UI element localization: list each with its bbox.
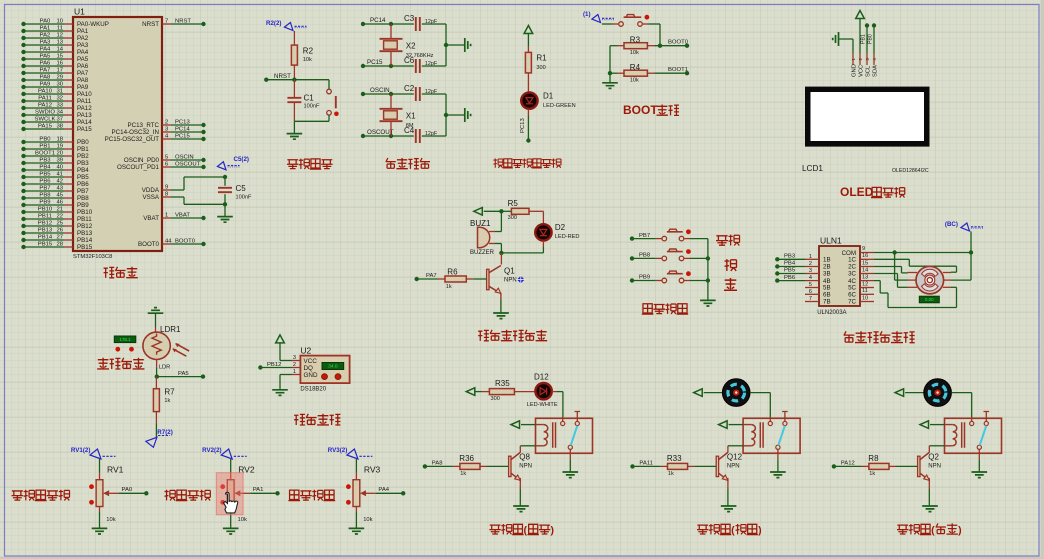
crystal block X2 [361,17,446,68]
potentiometer RV1 10k [89,459,124,523]
LCD1 OLED display body [802,87,930,174]
wire 4C to motor [874,281,957,308]
svg-text:3C: 3C [848,271,856,278]
svg-text:41: 41 [56,171,63,177]
svg-text:PA13: PA13 [77,112,92,119]
svg-text:1k: 1k [460,471,466,477]
svg-text:100nF: 100nF [304,103,320,109]
motor display [919,296,939,303]
svg-text:D2: D2 [555,223,566,232]
OLED ground (left) [833,32,853,53]
buzzer BUZ1 [470,209,504,256]
potentiometer RV3 10k [346,459,381,523]
power arrow U2 [276,335,292,361]
svg-text:PA12: PA12 [77,105,92,112]
svg-text:PA4: PA4 [77,49,89,56]
svg-text:C1: C1 [304,93,315,102]
U1 right pin 3 PC14-OSC32_IN [112,126,206,136]
svg-text:300: 300 [508,215,517,221]
main chip U1 STM32F103C8 [73,7,162,261]
svg-text:34.0: 34.0 [328,364,338,370]
temp sensor U2 DS18B20 [292,345,350,392]
svg-text:PB7: PB7 [77,188,89,195]
svg-text:C6: C6 [404,56,415,65]
svg-text:PA5: PA5 [178,371,189,377]
wire 3C to motor [874,274,908,288]
reset button [294,80,338,122]
svg-text:ULN2003A: ULN2003A [817,310,846,316]
svg-text:R33: R33 [667,454,682,463]
svg-text:PA11: PA11 [38,95,52,101]
svg-text:PB3: PB3 [39,157,51,163]
label for RV1 [12,490,70,501]
svg-text:14: 14 [56,46,63,52]
net PC13 vertical label [520,118,526,133]
svg-text:PB0: PB0 [39,136,51,142]
label 四项步进电机 [844,331,915,342]
svg-text:PB12: PB12 [77,223,93,230]
pin 17 PA7 wire [21,67,88,77]
svg-text:R2(2): R2(2) [266,20,281,27]
pin 43 PB7 wire [21,185,89,195]
svg-text:3: 3 [809,268,812,274]
ULN1 pin 4 4B [805,275,831,285]
power arrow fan [895,389,924,397]
driver U ULN1 ULN2003A [817,235,860,316]
svg-text:PA6: PA6 [77,63,89,70]
U1 right pin 4 PC15-OSC32_OUT [105,133,206,143]
svg-text:PC13: PC13 [175,119,190,125]
crystal block X1 [361,87,446,138]
svg-text:PA9: PA9 [40,81,51,87]
svg-text:10k: 10k [630,78,639,84]
svg-text:PB15: PB15 [77,244,93,251]
svg-text:9: 9 [862,246,865,252]
svg-text:LDR1: LDR1 [160,325,181,334]
svg-text:1: 1 [165,212,168,218]
net PA1 [250,487,279,496]
label BOOT电路 [623,103,679,117]
svg-text:D12: D12 [534,372,549,381]
ULN1 pin 6 6B [805,289,831,299]
pin 14 PA4 wire [21,46,88,56]
svg-text:PB15: PB15 [38,241,53,247]
svg-text:PA6: PA6 [40,60,51,66]
capacitor C5 100nF [218,175,252,207]
svg-text:PB1: PB1 [77,146,89,153]
relay Q [945,412,1002,460]
fan motor [722,379,750,407]
svg-text:LED-GREEN: LED-GREEN [543,103,576,109]
resistor R5 300 [501,199,543,221]
svg-text:300: 300 [491,396,500,402]
svg-text:40: 40 [56,164,63,170]
pin 19 PB1 wire [21,143,89,153]
capacitor C2 12pF [404,84,438,101]
svg-text:PB14: PB14 [77,237,93,244]
LDR value display [114,336,136,352]
svg-text:7C: 7C [848,299,856,306]
LED D12 LED-WHITE [527,372,563,417]
svg-text:DQ: DQ [304,365,314,372]
svg-text:PA7: PA7 [40,67,51,73]
probe (1) [583,11,614,23]
svg-text:OSCOUT: OSCOUT [367,129,394,136]
svg-text:3: 3 [293,355,296,361]
wire VSSA to C5 [171,197,225,204]
relay bottom ground [972,459,988,477]
svg-text:PB8: PB8 [639,253,651,259]
svg-text:PA5: PA5 [77,56,89,63]
pin 16 PA6 wire [21,60,88,70]
svg-text:21: 21 [56,206,63,212]
U1 right pin 9 VDDA [142,184,171,194]
svg-text:BOOT1: BOOT1 [35,150,55,156]
svg-text:14: 14 [862,267,868,273]
svg-text:PB7: PB7 [39,185,50,191]
capacitor C4 12pF [404,126,438,143]
svg-text:VBAT: VBAT [143,215,159,222]
svg-text:R35: R35 [495,379,510,388]
svg-text:PA3: PA3 [77,42,89,49]
svg-text:6B: 6B [823,292,831,299]
svg-text:28: 28 [56,241,63,247]
svg-text:PA1: PA1 [40,25,51,31]
svg-text:9: 9 [165,184,168,190]
svg-text:C2: C2 [404,84,415,93]
svg-text:PA10: PA10 [77,91,92,98]
svg-text:PB1: PB1 [39,143,50,149]
pin 27 PB14 wire [21,234,92,244]
relay Q [536,412,593,460]
svg-text:10: 10 [56,18,63,24]
svg-text:PB13: PB13 [77,230,93,237]
svg-text:R4: R4 [630,63,641,72]
svg-text:PB4: PB4 [39,164,51,170]
svg-text:R2: R2 [303,47,314,56]
net PB5 to ULN [775,268,805,276]
svg-text:C5: C5 [236,184,247,193]
label 加 [725,259,737,271]
power arrow R35 [466,388,489,396]
svg-text:PB5: PB5 [39,171,51,177]
svg-text:): ) [551,524,555,536]
relay coil power arrow [920,421,945,429]
svg-text:RV2(2): RV2(2) [202,447,222,454]
svg-text:PB0: PB0 [77,139,89,146]
U1 right pin 7 NRST [142,18,206,28]
svg-text:30: 30 [56,81,63,87]
potentiometer RV2 10k [220,459,255,523]
svg-text:PA8: PA8 [432,460,443,466]
svg-text:PB4: PB4 [784,261,796,267]
svg-text:32: 32 [56,95,63,101]
svg-text:PA7: PA7 [77,70,89,77]
svg-text:BUZZER: BUZZER [470,250,495,256]
pin 21 PB10 wire [21,206,92,216]
wire 1C to motor [874,259,957,272]
label 声光报警电路 [478,330,547,341]
svg-text:C4: C4 [404,126,415,135]
svg-text:R5: R5 [508,199,519,208]
svg-text:1: 1 [809,254,812,260]
svg-text:GND: GND [304,372,318,379]
svg-text:10k: 10k [106,517,115,523]
svg-text:29: 29 [56,74,63,80]
label 独立按键 [642,303,688,314]
svg-text:VCC: VCC [859,65,865,77]
svg-text:(: ( [931,524,935,536]
ULN1 pin 13 4C [848,274,874,284]
fan to relay wire [951,393,971,417]
U1 right pin 8 VSSA [142,191,171,201]
ground crystal (sideways) [444,108,471,122]
svg-text:R8: R8 [868,454,879,463]
ground Q12 [721,478,737,512]
svg-text:Q1: Q1 [504,267,515,276]
svg-text:16: 16 [56,60,63,66]
stepper motor [908,266,952,294]
transistor Q1 NPN [487,253,517,294]
relay coil power arrow [719,421,744,429]
capacitor C1 100nF [287,80,320,122]
svg-text:PB6: PB6 [77,181,89,188]
label for RV2 [164,490,210,501]
node PA5 [155,360,206,379]
pin 46 PB9 wire [21,199,89,209]
svg-text:2: 2 [809,261,812,267]
svg-text:1B: 1B [823,257,831,264]
svg-text:1k: 1k [668,471,674,477]
label for RV3 [288,490,335,501]
LED D1 LED-GREEN [521,92,575,110]
svg-text:PA7: PA7 [426,273,437,279]
svg-text:PA8: PA8 [77,77,89,84]
ULN1 pin 5 5B [805,282,831,292]
svg-text:Q8: Q8 [519,453,530,462]
svg-text:10k: 10k [303,57,312,63]
svg-text:SDA: SDA [873,65,879,77]
svg-text:(: ( [524,524,528,536]
svg-text:C5(2): C5(2) [234,156,249,163]
svg-text:BOOT0: BOOT0 [138,241,160,248]
svg-text:PC14: PC14 [370,17,386,24]
pin 42 PB6 wire [21,178,89,188]
svg-text:4: 4 [809,275,812,281]
svg-text:ULN1: ULN1 [820,235,842,245]
svg-text:PB3: PB3 [77,160,89,167]
pin 13 PA3 wire [21,39,88,49]
fan motor [924,379,952,407]
ground Q8 [513,478,529,512]
svg-text:6: 6 [809,289,812,295]
svg-text:1k: 1k [446,284,452,290]
svg-text:1k: 1k [164,398,170,404]
svg-text:BOOT0: BOOT0 [175,238,196,244]
wire VDDA to C5 [171,177,225,190]
net PB6 to ULN [775,275,805,283]
svg-text:PA2: PA2 [40,32,51,38]
svg-text:27: 27 [56,234,63,240]
svg-text:34: 34 [56,109,63,115]
svg-text:19: 19 [56,143,63,149]
ground Q2 [922,478,938,512]
label 继电器(空调) [697,524,762,536]
svg-text:39: 39 [56,157,63,163]
svg-text:OSCIN_PD0: OSCIN_PD0 [124,157,160,164]
net PA4 [376,487,406,496]
ground for C5 [217,204,233,222]
svg-text:2C: 2C [848,264,856,271]
label 主芯片 [104,267,138,278]
svg-text:BOOT1: BOOT1 [668,67,688,73]
svg-text:10: 10 [862,295,868,301]
svg-text:D1: D1 [543,92,554,101]
svg-text:PC15: PC15 [175,133,190,139]
svg-text:6C: 6C [848,292,856,299]
label 测温模块 [294,414,340,425]
svg-text:12pF: 12pF [425,131,438,137]
svg-text:PB3: PB3 [784,254,796,260]
net PB3 to ULN [775,254,805,262]
svg-text:PB9: PB9 [639,275,650,281]
ULN1 pin 2 2B [805,261,831,271]
svg-text:C3: C3 [404,14,415,23]
svg-text:R1: R1 [536,54,547,63]
ground RV3 [349,507,365,535]
resistor R1 300 [525,46,547,92]
U1 right pin 1 VBAT [143,212,205,222]
svg-text:VDDA: VDDA [142,187,160,194]
button bus + ground [700,239,716,306]
svg-text:PB8: PB8 [77,195,89,202]
capacitor C6 12pF [404,56,438,73]
svg-text:PA11: PA11 [77,98,92,105]
svg-text:PA9: PA9 [77,84,89,91]
svg-text:DS18B20: DS18B20 [300,386,326,392]
svg-text:PB11: PB11 [77,216,92,223]
svg-text:12: 12 [56,32,63,38]
transistor Q12 NPN [716,446,743,481]
pin 15 PA5 wire [21,53,88,63]
svg-text:LED-RED: LED-RED [555,234,580,240]
resistor R6 1k, input PA7 [415,268,487,291]
ground RV2 [223,507,239,535]
svg-text:PA15: PA15 [38,123,53,129]
crystal X2 32.768KHz [380,24,434,66]
power arrow fan [694,389,723,397]
boot select button [602,15,660,46]
ULN1 pin 12 5C [848,281,874,291]
wire D1 to terminal [526,109,530,143]
svg-text:R7: R7 [164,387,175,396]
svg-text:PA4: PA4 [40,46,51,52]
ground BOOT [602,73,618,88]
svg-text:R7(2): R7(2) [157,429,172,436]
svg-text:PA4: PA4 [378,487,389,493]
probe RV3(2) [328,447,373,459]
svg-text:PC14: PC14 [175,126,190,132]
svg-text:2: 2 [293,362,296,368]
svg-text:OLED12864I2C: OLED12864I2C [892,168,929,174]
pin 18 PB0 wire [21,136,89,146]
ground reset [287,121,303,139]
svg-text:RV1: RV1 [107,465,124,475]
relay bottom ground [770,459,786,477]
svg-text:PA0: PA0 [40,18,51,24]
power arrow alarm [474,208,502,216]
pin 31 PA10 wire [21,88,92,98]
svg-text:PA8: PA8 [40,74,51,80]
svg-text:PB10: PB10 [38,206,53,212]
ULN1 pin 1 1B [805,254,831,264]
svg-text:13: 13 [862,274,868,280]
svg-text:NRST: NRST [274,73,291,80]
svg-text:NRST: NRST [142,21,159,28]
power arrow for R1 [524,26,533,47]
svg-text:PB4: PB4 [77,167,89,174]
svg-text:VCC: VCC [304,358,318,365]
probe C5(2) [217,156,249,170]
svg-text:PB6: PB6 [784,275,796,281]
pin 20 BOOT1 wire [21,150,89,160]
svg-text:15: 15 [56,53,63,59]
svg-text:5: 5 [809,282,812,288]
svg-text:PB0: PB0 [868,34,874,44]
svg-text:10k: 10k [630,50,639,56]
svg-text:PB11: PB11 [38,213,52,219]
svg-text:LDR: LDR [159,365,171,371]
svg-text:31: 31 [56,88,63,94]
svg-text:1: 1 [293,369,296,375]
svg-text:46: 46 [56,199,63,205]
svg-text:11: 11 [57,25,63,31]
svg-text:): ) [958,524,962,536]
crystal X1 8M [380,94,417,136]
svg-text:25: 25 [56,220,63,226]
svg-text:GND: GND [852,64,858,77]
svg-text:Q12: Q12 [727,453,743,462]
svg-text:PA14: PA14 [77,119,92,126]
svg-text:PB14: PB14 [38,234,53,240]
svg-text:17: 17 [56,67,63,73]
svg-text:PA0: PA0 [122,487,133,493]
ground crystal (sideways) [444,38,471,52]
pin 41 PB5 wire [21,171,89,181]
svg-text:7: 7 [165,18,168,24]
svg-text:X1: X1 [406,112,416,121]
ULN1 pin 16 1C [848,253,874,263]
svg-text:PB1: PB1 [861,34,867,44]
resistor R4 10k [608,46,689,84]
mouse cursor [224,492,238,513]
svg-text:12: 12 [862,281,868,287]
svg-text:SWDIO: SWDIO [35,109,55,115]
svg-text:OSCIN: OSCIN [175,154,194,160]
pin 30 PA9 wire [21,81,88,91]
svg-text:7B: 7B [823,299,831,306]
pin 34 SWDIO wire [21,109,92,119]
label 继电器(照明) [489,524,554,536]
pin 39 PB3 wire [21,157,89,167]
OLED power arrow [856,11,865,54]
svg-text:PB2: PB2 [77,153,89,160]
LDR1 photoresistor [143,325,189,371]
pin 40 PB4 wire [21,164,89,174]
label OLED显示屏 [840,185,905,199]
svg-text:LCD1: LCD1 [802,164,823,173]
svg-text:LED-WHITE: LED-WHITE [527,402,558,408]
